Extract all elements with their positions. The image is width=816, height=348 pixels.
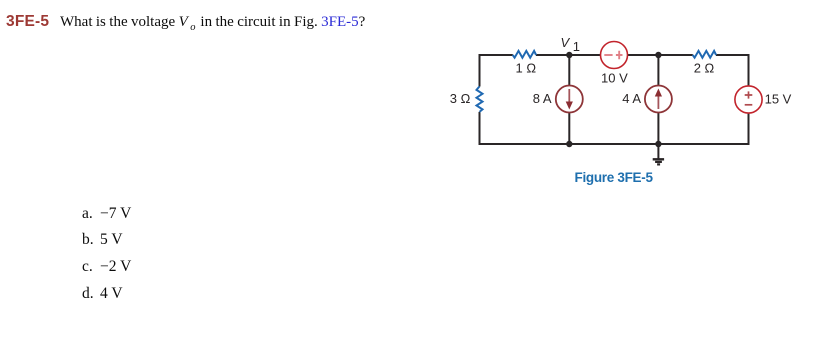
answer b — [82, 231, 123, 249]
wire top-right segment (2ohm to corner) — [716, 54, 749, 56]
wire 4A branch upper — [657, 55, 659, 86]
wire right branch lower — [748, 113, 750, 145]
question text — [60, 14, 365, 33]
voltage source 15V — [735, 86, 762, 113]
svg-text:4 A: 4 A — [622, 91, 641, 106]
node bottom junction dot (ground node) — [655, 141, 661, 147]
ground — [653, 144, 664, 164]
wire top segment (10V to node) — [628, 54, 693, 56]
svg-text:1 Ω: 1 Ω — [516, 60, 537, 75]
wire 8A branch lower — [568, 113, 570, 145]
node top junction dot (4A branch) — [655, 52, 661, 58]
answer a — [82, 205, 131, 223]
current source 8A — [556, 86, 583, 113]
voltage source 10V — [601, 42, 628, 69]
svg-text:3 Ω: 3 Ω — [450, 91, 471, 106]
wire left branch lower — [479, 112, 481, 145]
svg-text:1: 1 — [573, 39, 580, 54]
resistor R2 2ohm — [693, 51, 716, 58]
problem number 3FE-5 — [6, 13, 49, 31]
svg-text:10 V: 10 V — [601, 70, 628, 85]
answer d — [82, 285, 123, 303]
resistor R3 3ohm — [477, 86, 483, 112]
wire top-left segment — [480, 54, 513, 56]
svg-text:V: V — [561, 35, 571, 50]
figure caption — [575, 170, 653, 185]
svg-text:8 A: 8 A — [533, 91, 552, 106]
wire 8A branch upper — [568, 55, 570, 86]
answer c — [82, 258, 131, 276]
wire top middle segment (1ohm to node V1) — [536, 54, 601, 56]
svg-text:2 Ω: 2 Ω — [694, 60, 715, 75]
node bottom junction dot (8A branch) — [566, 141, 572, 147]
node V1 junction dot — [566, 52, 572, 58]
resistor R1 1ohm — [513, 51, 536, 58]
wire right branch upper — [748, 54, 750, 86]
svg-text:15 V: 15 V — [765, 91, 792, 106]
wire 4A branch lower — [657, 113, 659, 145]
wire bottom — [480, 143, 749, 145]
wire left branch upper — [479, 54, 481, 87]
current source 4A — [645, 86, 672, 113]
